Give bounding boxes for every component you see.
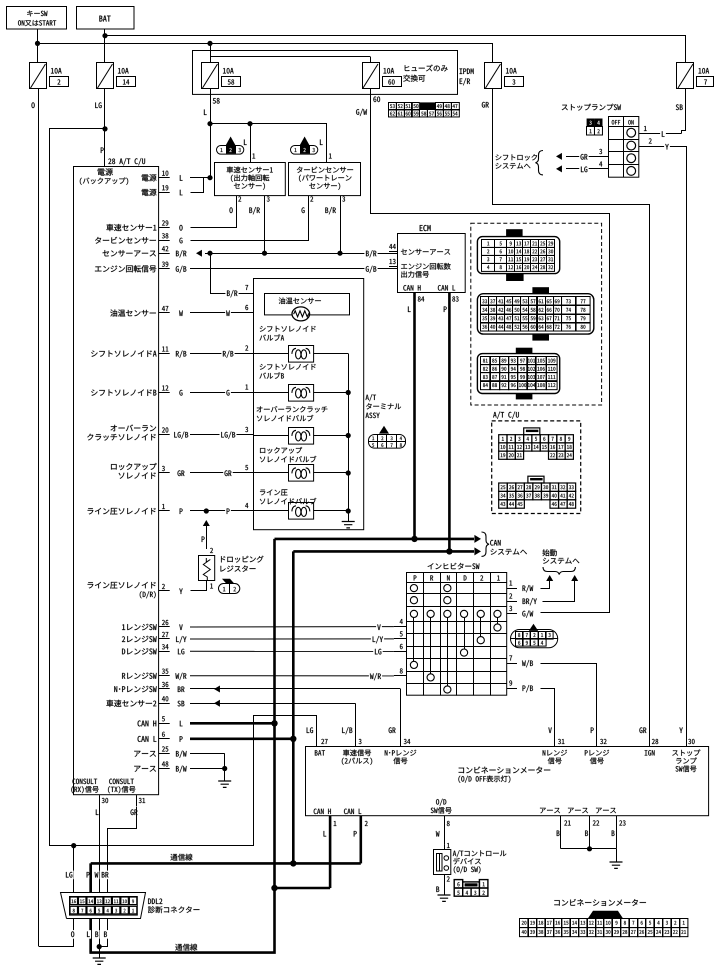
wire key-SW bus [35, 30, 493, 64]
wire G/W from fuse F60 [356, 89, 609, 613]
wire sensor-ground B/R bus to ECM pin44 [196, 249, 397, 258]
wire CAN-H from ECM pin84 [403, 285, 424, 542]
resistor dropping [199, 556, 264, 581]
wire CAN-H bus [190, 535, 481, 891]
wire SB speed2 to meter pin3 [190, 700, 356, 747]
meter combination box [306, 747, 709, 816]
wire meter ground bus [561, 846, 617, 862]
wire B DDL2 pin5 ground [94, 919, 102, 958]
wire L/Y range2 [190, 635, 394, 644]
sensor vehicle-speed-1 box [215, 163, 286, 196]
wire W/R rangeR [190, 672, 394, 681]
wire P comm line to DDL2 pin14 [85, 863, 91, 892]
wire inhibitor pin2 BR/Y to starter [523, 575, 579, 605]
connector A/T-C/U harness dashed box [492, 412, 581, 514]
connector inhibitor pins left 4 5 6 8 [394, 619, 407, 675]
wire LG from fuse F14 [95, 89, 145, 167]
fuse F60 10A replace-only note [363, 63, 448, 89]
connector meter pin34 N-P [385, 727, 417, 764]
connector meter pin28 IGN [639, 727, 658, 755]
wire turbine pin3 B/R [325, 196, 345, 256]
connector A/T device cells [454, 880, 488, 897]
connector inhibitor pins right 1 2 3 7 9 [507, 581, 517, 689]
battery BAT box [77, 7, 135, 30]
connector oval inhibitor 8-7-2-1-3 [511, 624, 558, 648]
wire line-pressure P with junction [202, 508, 213, 553]
ECU ECM box [398, 225, 466, 292]
wire stop-lamp pin3 GR to shift lock [556, 149, 609, 161]
solenoid shift-B valve [190, 364, 351, 401]
ground DDL2 [93, 958, 106, 964]
switch stop-lamp-SW [562, 104, 639, 178]
connector oval sensor1 1-2-3 [217, 137, 244, 155]
ground A/T control device [438, 895, 451, 901]
wire solenoid common ground [342, 354, 355, 528]
wire comm line lower [91, 816, 330, 953]
label solenoid rows two-line [87, 425, 156, 599]
wire GR consult-TX to DDL2 [100, 807, 136, 893]
wire inhibitor pin7 W/B to meter pin32 [522, 660, 596, 746]
switch key-SW box [7, 7, 67, 30]
connector A/T-C/U grid pins 1-24 [499, 428, 574, 459]
wire sensor1 pin3 B/R [249, 196, 269, 256]
switch A/T control device O/D [434, 843, 507, 895]
wire GR from fuse F3 to meter IGN [482, 89, 650, 747]
solenoid lock-up valve [190, 447, 351, 481]
connector oval dropping 1-2 [219, 579, 240, 594]
wire sensor1 pin2 O [191, 196, 242, 228]
ground A/T-C/U [218, 781, 231, 787]
label shift-lock system [496, 151, 543, 175]
connector ECM pin44 sensor-ground [389, 244, 450, 255]
sensor oil-temp box [265, 294, 350, 321]
fuse F7 10A [677, 63, 714, 89]
fuse F58 10A [202, 63, 241, 89]
solenoid overrun-clutch valve [190, 406, 351, 444]
connector A/T-C/U grid pins 25-48 [499, 476, 576, 508]
solenoid line-pressure valve [190, 489, 348, 519]
IPDM E/R box [193, 51, 474, 95]
connector meter pin27 BAT [307, 727, 328, 755]
wire LG rail to diagnostic [50, 129, 317, 849]
label CAN system [482, 532, 527, 556]
wire L from fuse F58 [204, 89, 220, 180]
wire O to DDL2 pin8 [39, 919, 76, 947]
ground combination meter [610, 862, 623, 868]
wire B/R to solenoid pin7 [211, 254, 254, 298]
wire O from fuse F2 [31, 89, 38, 946]
wire stop-lamp pin1 L [639, 126, 682, 139]
wire engine-rev G/B to ECM pin13 [190, 265, 397, 274]
wire CAN-L bus [190, 547, 481, 866]
wire turbine pin2 G [191, 196, 314, 241]
wire B/W ground pins 25 48 [190, 754, 227, 782]
connector meter pin30 stop-lamp [672, 727, 700, 772]
wire W oil temp to pin6 [190, 305, 254, 318]
switch inhibitor-SW grid [407, 563, 507, 696]
connector meter CAN pins 1 2 [314, 809, 368, 837]
wire comm line upper [91, 816, 361, 893]
connector DDL2 diagnostic [61, 893, 200, 919]
wire LG rangeD [190, 648, 394, 657]
wire L pins 10 19 [190, 178, 210, 193]
wire dropping resistor to pin2 Y [191, 581, 213, 591]
connector meter pin3 speed [342, 727, 372, 765]
fuse F2 10A [30, 63, 69, 89]
solenoid shift-A valve [190, 326, 348, 362]
switch inhibitor contacts [410, 585, 501, 694]
actuator solenoid assembly box [254, 279, 364, 530]
connector ECM harness dashed box [471, 223, 602, 405]
fuse F14 10A [97, 63, 136, 89]
connector ECM grid pins 81-112 [477, 348, 559, 400]
wire inhibitor pin9 P/B to meter pin31 [523, 685, 555, 746]
connector ECM grid pins 1-32 [477, 229, 559, 281]
wire inhibitor pin1 R/W to starter [523, 575, 554, 592]
IPDM connector pin grid 47-62 [389, 102, 460, 117]
connector ECM grid pins 33-80 [477, 287, 593, 340]
connector meter ground pins 21 22 23 [540, 808, 626, 849]
wire stop-lamp pin4 LG to shift lock [556, 162, 609, 174]
node pin28 power backup [80, 168, 128, 185]
wire L comm to DDL2 pin6 [85, 919, 91, 953]
connector oval turbine 1-2-3 [291, 137, 318, 155]
wire LG drop to DDL2 [64, 846, 74, 893]
connector meter pin32 P-range [585, 727, 609, 764]
sensor turbine box [289, 163, 361, 196]
connector A/T terminal assy [366, 394, 406, 448]
wire sensor supply L [211, 121, 332, 163]
wire B DDL2 pin4 [100, 919, 109, 947]
wire V range1 [190, 623, 394, 632]
label starter system [543, 549, 580, 574]
connector meter pin31 N-range [543, 727, 567, 764]
ECU A/T-C/U box [74, 167, 159, 795]
wire L consult-RX to DDL2 [94, 806, 100, 893]
wire inhibitor pin3 G/W [522, 610, 533, 617]
connector combination meter grid [520, 899, 688, 937]
fuse F3 10A [485, 63, 524, 89]
wire BAT bus [102, 30, 685, 64]
wire BR N-P range to meter pin34 [190, 686, 401, 747]
wire CAN-L from ECM pin83 [438, 285, 459, 554]
wire SB from fuse F7 [676, 89, 686, 134]
connector A/T-C/U consult pins 30 31 [71, 779, 145, 815]
wire stop-lamp pin2 Y to meter [639, 138, 687, 746]
connector ECM pin13 engine-rev-out [389, 259, 451, 278]
connector meter O/D SW pin8 [431, 799, 452, 845]
connector A/T-C/U right-edge pins [88, 171, 190, 774]
